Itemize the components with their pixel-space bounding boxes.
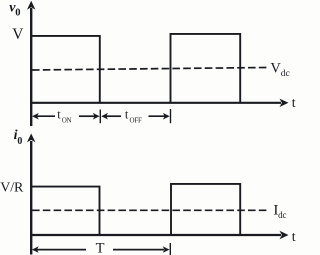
svg-text:dc: dc bbox=[278, 210, 286, 220]
svg-text:t: t bbox=[292, 230, 296, 245]
svg-text:V/R: V/R bbox=[0, 181, 24, 196]
svg-text:0: 0 bbox=[15, 7, 20, 18]
svg-text:0: 0 bbox=[17, 136, 22, 147]
svg-text:t: t bbox=[125, 108, 129, 122]
svg-text:OFF: OFF bbox=[130, 117, 143, 125]
svg-text:t: t bbox=[292, 96, 296, 111]
svg-text:dc: dc bbox=[281, 69, 290, 79]
svg-text:T: T bbox=[96, 241, 105, 255]
svg-text:ON: ON bbox=[62, 117, 72, 125]
svg-text:t: t bbox=[57, 108, 61, 122]
svg-text:V: V bbox=[12, 26, 24, 43]
